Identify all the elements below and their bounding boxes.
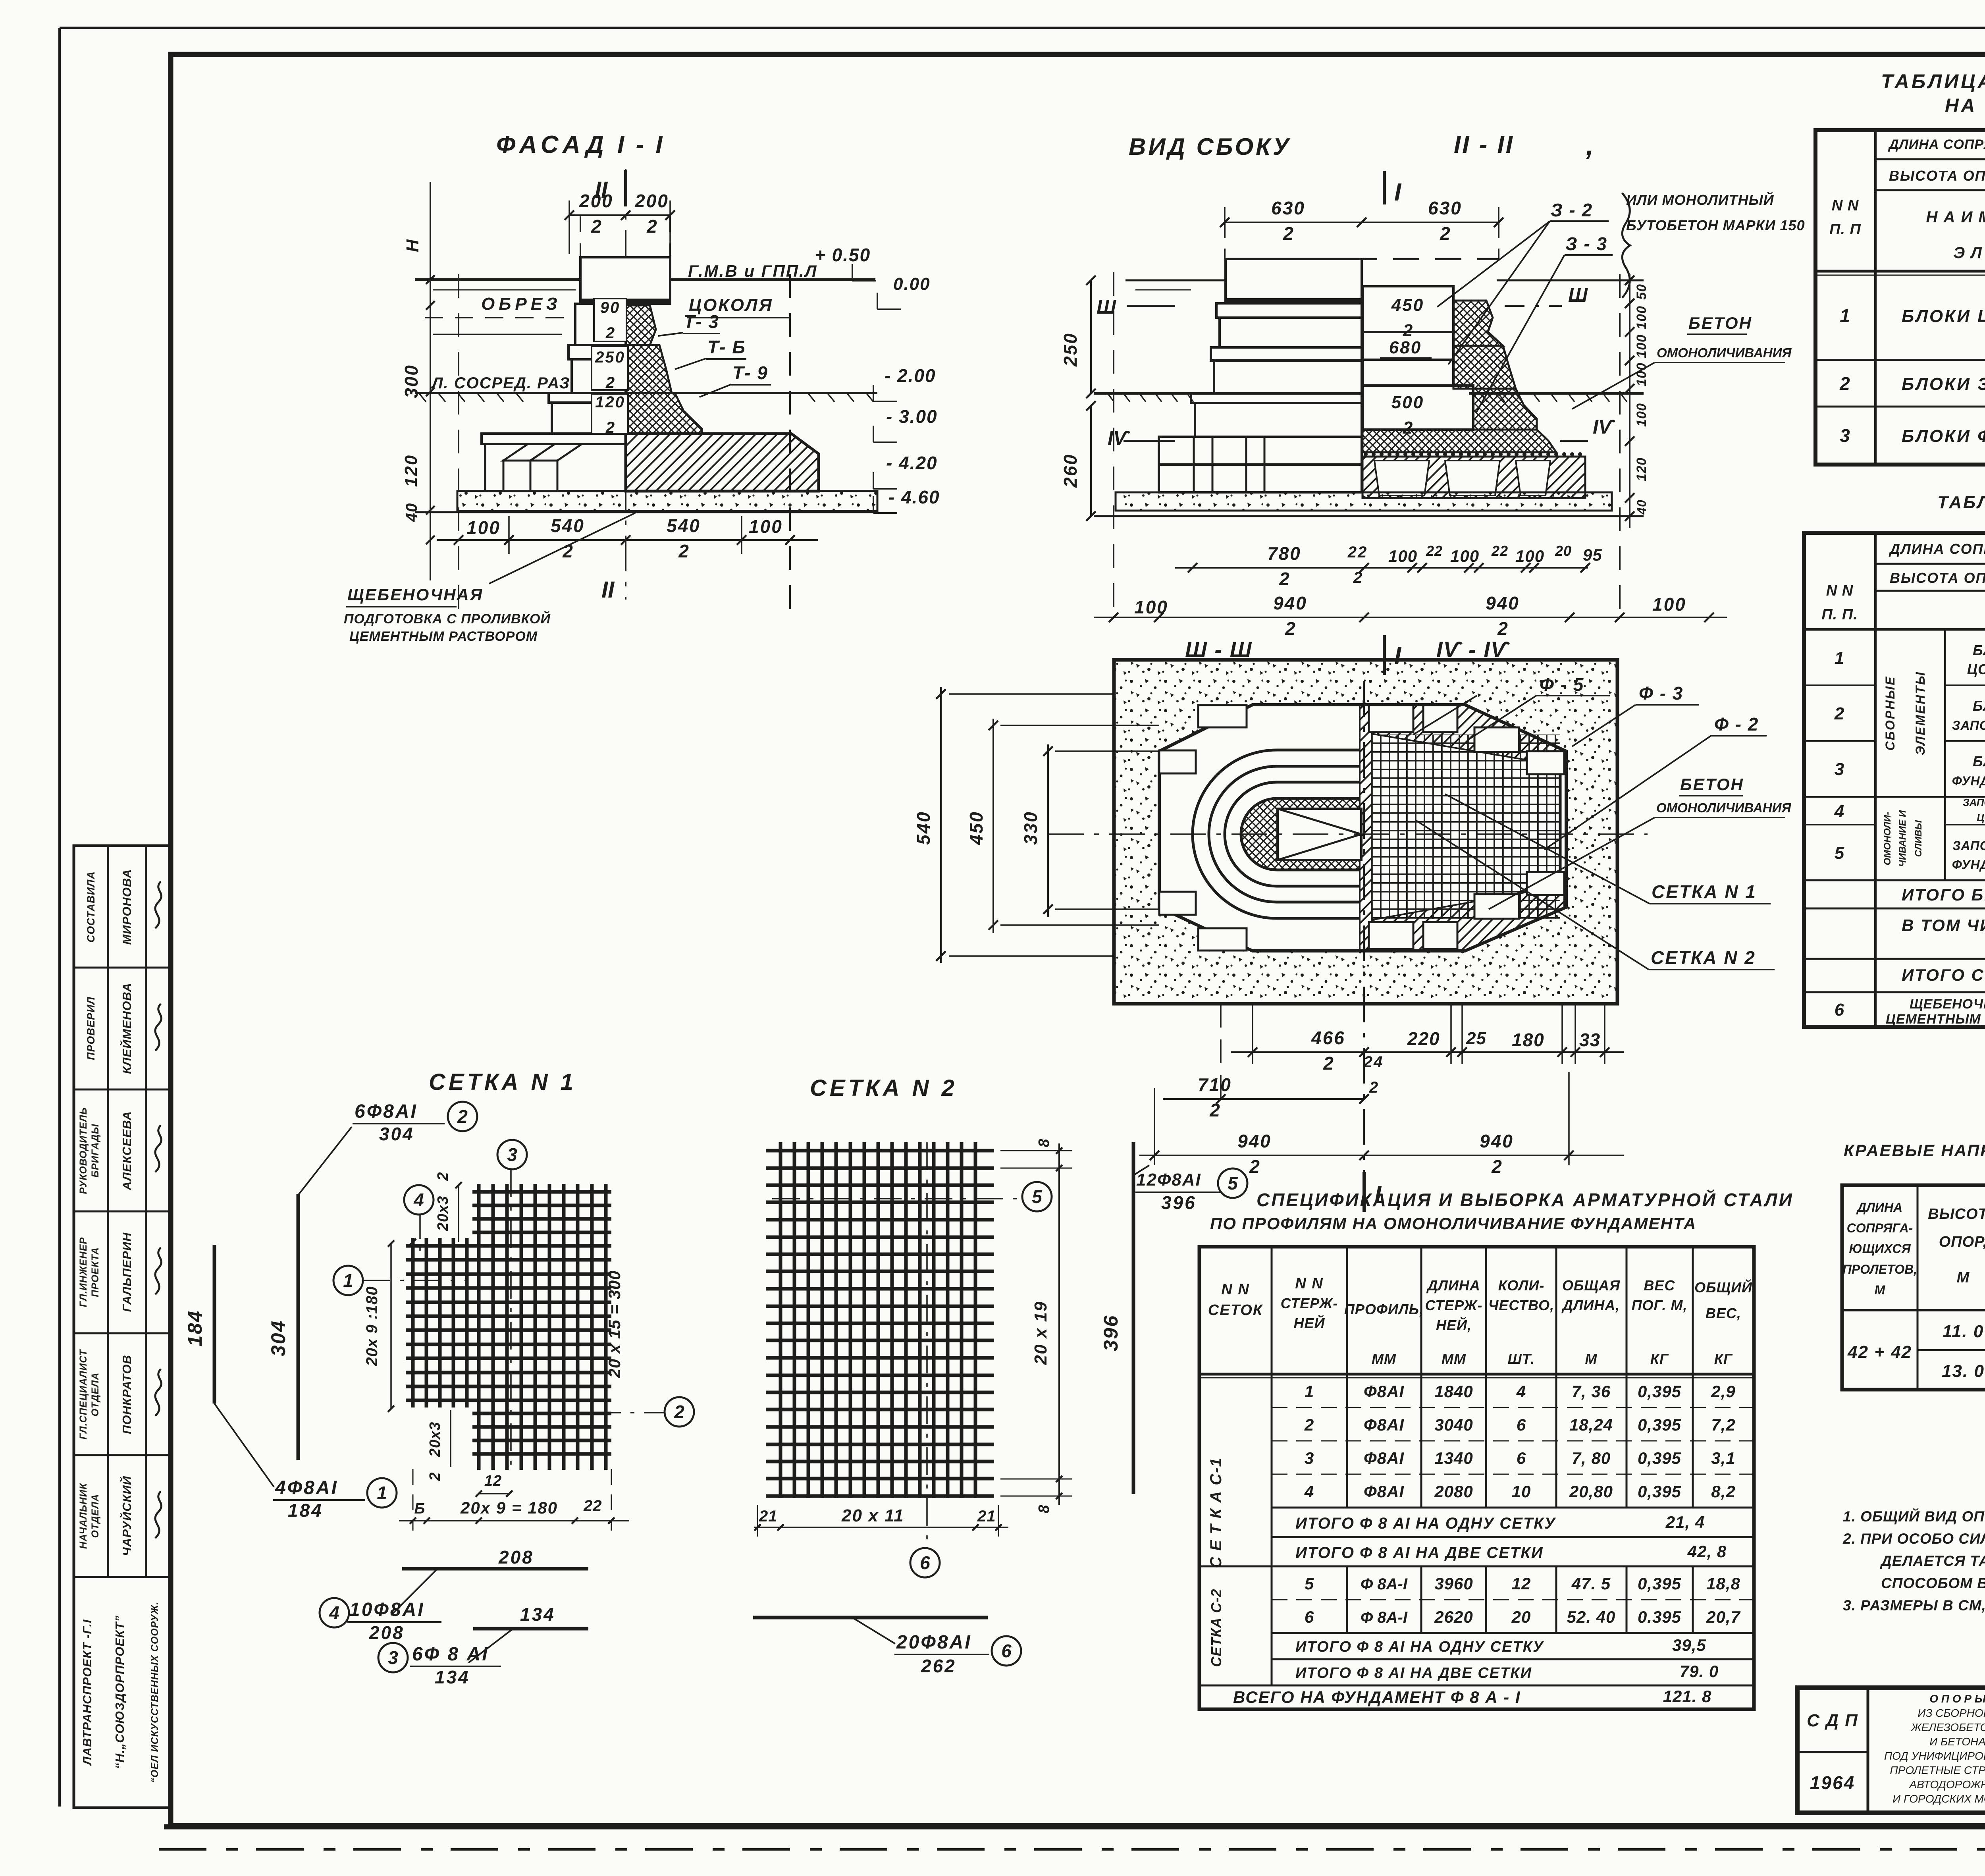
- side view right dashed axis: [1619, 274, 1621, 621]
- svg-text:ВЕС,: ВЕС,: [1706, 1305, 1741, 1321]
- svg-text:220: 220: [1407, 1028, 1440, 1049]
- facade cut-of-plinth dashed level: [425, 317, 572, 318]
- svg-text:0,395: 0,395: [1638, 1382, 1681, 1401]
- edge stresses table: [1842, 1185, 1985, 1390]
- svg-text:М: М: [1585, 1351, 1598, 1367]
- svg-text:4: 4: [1516, 1382, 1526, 1401]
- svg-text:0,395: 0,395: [1638, 1574, 1681, 1593]
- svg-text:II: II: [601, 577, 615, 603]
- svg-text:0.00: 0.00: [893, 274, 931, 294]
- svg-text:2: 2: [1353, 569, 1362, 586]
- svg-text:304: 304: [267, 1320, 289, 1356]
- sheet outer cut line (top): [60, 27, 1985, 29]
- svg-text:940: 940: [1486, 593, 1520, 613]
- svg-text:3: 3: [388, 1647, 398, 1668]
- svg-text:208: 208: [369, 1622, 405, 1643]
- svg-text:2: 2: [605, 419, 615, 436]
- svg-text:100: 100: [1388, 547, 1417, 565]
- svg-text:20х3: 20х3: [427, 1422, 443, 1458]
- svg-text:N N: N N: [1295, 1275, 1323, 1292]
- svg-text:10Ф8АI: 10Ф8АI: [349, 1599, 425, 1620]
- svg-text:20,80: 20,80: [1569, 1482, 1613, 1501]
- svg-text:Ф8АI: Ф8АI: [1364, 1415, 1404, 1434]
- svg-text:940: 940: [1237, 1131, 1272, 1151]
- svg-text:И БЕТОНА: И БЕТОНА: [1929, 1735, 1985, 1748]
- svg-text:2: 2: [1497, 618, 1508, 639]
- svg-text:1: 1: [377, 1483, 387, 1503]
- svg-text:ІѴ: ІѴ: [1593, 416, 1616, 438]
- svg-text:2: 2: [1249, 1156, 1260, 1177]
- plan dim row 710/2: [1163, 1004, 1369, 1120]
- svg-text:СПОСОБОМ В СООТВЕТСТВИИ С Л: СПОСОБОМ В СООТВЕТСТВИИ С ЛИСТОМ 112 ПО …: [1881, 1575, 1985, 1591]
- svg-text:СЕТКА N 1: СЕТКА N 1: [1652, 881, 1757, 902]
- svg-text:“ОЕЛ ИСКУССТВЕННЫХ СООРУЖ.: “ОЕЛ ИСКУССТВЕННЫХ СООРУЖ.: [149, 1602, 160, 1783]
- svg-text:Ф - 3: Ф - 3: [1639, 683, 1683, 704]
- svg-text:3: 3: [1840, 425, 1851, 446]
- spec table: [1199, 1247, 1754, 1709]
- svg-text:ОБРЕЗ: ОБРЕЗ: [481, 294, 561, 314]
- svg-text:СОПРЯГА-: СОПРЯГА-: [1847, 1221, 1913, 1235]
- svg-text:4Ф8АI: 4Ф8АI: [275, 1477, 338, 1498]
- svg-text:МИРОНОВА: МИРОНОВА: [120, 869, 134, 945]
- svg-text:6: 6: [920, 1552, 930, 1573]
- svg-text:100: 100: [466, 517, 501, 538]
- svg-text:ДЕЛАЕТСЯ ТАМПОНАЖНЫЙ СЛОЙ: ДЕЛАЕТСЯ ТАМПОНАЖНЫЙ СЛОЙ БЕТОНА, УКЛАДЫ…: [1880, 1552, 1985, 1569]
- side view right dimension chain 50/100/100/100/100/120/40: [1625, 274, 1649, 528]
- plan dim row 940/2 + 940/2: [1139, 1072, 1624, 1177]
- svg-text:1340: 1340: [1434, 1449, 1473, 1467]
- svg-text:СЕТКА N 1: СЕТКА N 1: [429, 1069, 576, 1095]
- svg-text:13. 0: 13. 0: [1942, 1361, 1985, 1381]
- svg-text:ГЛ.СПЕЦИАЛИСТ: ГЛ.СПЕЦИАЛИСТ: [78, 1349, 89, 1440]
- svg-text:120: 120: [401, 454, 421, 487]
- svg-text:З - 2: З - 2: [1551, 200, 1593, 220]
- facade section mark II top: [625, 169, 626, 600]
- svg-text:20Ф8АI: 20Ф8АI: [896, 1632, 972, 1653]
- svg-text:100: 100: [1634, 334, 1649, 358]
- svg-text:121. 8: 121. 8: [1663, 1687, 1712, 1706]
- svg-text:90: 90: [600, 299, 621, 316]
- plan right half: diagonal hatch along sloped edges: [1372, 705, 1564, 766]
- mesh N1 sample bar no.3 (134): [473, 1627, 588, 1631]
- svg-text:БЛОКИ ЗАПОЛНЕНИЯ: БЛОКИ ЗАПОЛНЕНИЯ: [1902, 374, 1985, 394]
- svg-text:100: 100: [749, 516, 783, 537]
- side view ground line: [1094, 392, 1197, 395]
- svg-text:940: 940: [1480, 1131, 1514, 1151]
- facade inner dims 90/2 250/2 120/2: [594, 299, 626, 341]
- svg-text:КГ: КГ: [1714, 1351, 1733, 1367]
- svg-text:1964: 1964: [1810, 1772, 1855, 1793]
- svg-text:ЦЕМЕНТНЫМ РАСТВОРОМ: ЦЕМЕНТНЫМ РАСТВОРОМ: [349, 629, 538, 644]
- bottom trim thick line: [164, 1824, 1985, 1830]
- svg-text:Н А И М Е Н О В А Н Н Е: Н А И М Е Н О В А Н Н Е: [1926, 208, 1985, 226]
- side view section mark I top: [1383, 171, 1386, 204]
- svg-text:22: 22: [1347, 544, 1368, 561]
- plan left dim 450: [992, 719, 994, 933]
- svg-text:ТАБЛИЦА МОНТАЖНЫХ ЭЛЕМЕНТО: ТАБЛИЦА МОНТАЖНЫХ ЭЛЕМЕНТОВ.: [1881, 70, 1985, 93]
- mesh N1 sample bar no.1 (184): [213, 1245, 216, 1404]
- svg-text:Т- 9: Т- 9: [732, 362, 768, 383]
- svg-text:24: 24: [1363, 1053, 1384, 1071]
- svg-text:100: 100: [1634, 403, 1649, 427]
- svg-text:2: 2: [1839, 373, 1851, 394]
- svg-text:20: 20: [1555, 543, 1572, 559]
- signature stamp table (rotated, left margin): [74, 846, 171, 1808]
- svg-text:БЕТОН: БЕТОН: [1688, 314, 1752, 332]
- svg-text:3: 3: [1305, 1449, 1314, 1467]
- svg-text:ДЛИНА: ДЛИНА: [1856, 1200, 1902, 1215]
- svg-text:АЛЕКСЕЕВА: АЛЕКСЕЕВА: [120, 1111, 134, 1191]
- svg-text:ПРОЕКТА: ПРОЕКТА: [90, 1247, 101, 1297]
- svg-text:12: 12: [1512, 1574, 1531, 1593]
- svg-text:ПРОВЕРИЛ: ПРОВЕРИЛ: [85, 997, 97, 1060]
- mesh N1 bottom dim row 6 20x9=180 22: [399, 1469, 629, 1531]
- svg-text:- 4.20: - 4.20: [886, 453, 938, 473]
- svg-text:Ф 8А-I: Ф 8А-I: [1361, 1609, 1408, 1626]
- svg-text:СОСТАВИЛА: СОСТАВИЛА: [85, 871, 97, 943]
- svg-text:БЛОКИ: БЛОКИ: [1973, 753, 1985, 769]
- svg-text:2: 2: [1440, 223, 1450, 244]
- svg-text:ДЛИНА СОПРЯГАЮЩИХСЯ ПРОЛЕТОВ: ДЛИНА СОПРЯГАЮЩИХСЯ ПРОЛЕТОВ: [1888, 137, 1985, 152]
- svg-text:ДЛИНА: ДЛИНА: [1426, 1277, 1480, 1294]
- svg-text:- 3.00: - 3.00: [886, 406, 938, 427]
- svg-text:500: 500: [1391, 393, 1424, 412]
- svg-text:Т- Б: Т- Б: [707, 337, 746, 357]
- svg-text:21, 4: 21, 4: [1665, 1513, 1705, 1531]
- svg-text:ПОГ. М,: ПОГ. М,: [1632, 1297, 1688, 1313]
- section mark I (between side view and plan): [1383, 635, 1386, 675]
- svg-text:6: 6: [1305, 1608, 1314, 1626]
- svg-text:466: 466: [1311, 1028, 1345, 1048]
- svg-text:2: 2: [1834, 704, 1845, 723]
- svg-text:КГ: КГ: [1650, 1351, 1669, 1367]
- svg-text:100: 100: [1652, 594, 1686, 615]
- plan left dim 330: [1047, 744, 1049, 917]
- svg-text:2: 2: [646, 216, 657, 237]
- svg-text:6Ф 8 АI: 6Ф 8 АI: [412, 1644, 489, 1665]
- svg-text:79. 0: 79. 0: [1680, 1662, 1719, 1681]
- facade water line GMV/GPPL: [415, 278, 875, 281]
- svg-text:6: 6: [1001, 1641, 1012, 1661]
- svg-text:0.395: 0.395: [1638, 1608, 1681, 1626]
- svg-text:100: 100: [1450, 547, 1479, 565]
- svg-text:1: 1: [343, 1270, 353, 1291]
- mesh N2 sample bar no.5 (396): [1132, 1142, 1135, 1494]
- svg-text:ФУНДАМЕНТА: ФУНДАМЕНТА: [1952, 858, 1985, 872]
- svg-text:260: 260: [1060, 453, 1081, 488]
- svg-text:5: 5: [1228, 1173, 1238, 1193]
- svg-text:НАЧАЛЬНИК: НАЧАЛЬНИК: [78, 1483, 89, 1549]
- svg-text:20 х 15 = 300: 20 х 15 = 300: [605, 1270, 624, 1378]
- svg-text:ЩЕБЕНОЧНАЯ ПОДГОТОВКА С ПРО: ЩЕБЕНОЧНАЯ ПОДГОТОВКА С ПРОЛИВКОЙ: [1910, 996, 1985, 1012]
- section II-II infill blocks Z-2 Z-3 (cross-hatched): [1363, 301, 1556, 452]
- svg-text:20х 9 = 180: 20х 9 = 180: [460, 1498, 558, 1517]
- svg-text:ПРОЛЕТНЫЕ СТРОЕНИЯ: ПРОЛЕТНЫЕ СТРОЕНИЯ: [1890, 1764, 1985, 1776]
- svg-text:52. 40: 52. 40: [1567, 1608, 1616, 1626]
- svg-text:ИТОГО СТАЛИ КЛАССА А-I: ИТОГО СТАЛИ КЛАССА А-I: [1902, 966, 1985, 984]
- svg-text:П. П: П. П: [1829, 221, 1861, 238]
- svg-text:ДЛИНА,: ДЛИНА,: [1561, 1297, 1620, 1313]
- svg-text:ГАЛЬПЕРИН: ГАЛЬПЕРИН: [120, 1232, 134, 1312]
- svg-text:2: 2: [591, 216, 601, 237]
- svg-text:5: 5: [1835, 843, 1845, 863]
- svg-text:Ф - 5: Ф - 5: [1540, 674, 1584, 695]
- svg-text:,: ,: [1586, 130, 1594, 161]
- svg-text:396: 396: [1161, 1192, 1197, 1213]
- svg-text:3: 3: [1835, 760, 1845, 779]
- svg-text:7, 36: 7, 36: [1572, 1382, 1611, 1401]
- svg-text:134: 134: [520, 1604, 555, 1625]
- plan left dim 540: [940, 687, 942, 963]
- section II-II centre blocks with dims 450/2 680 500/2: [1363, 286, 1473, 438]
- svg-text:- 2.00: - 2.00: [885, 365, 936, 386]
- svg-text:540: 540: [913, 811, 934, 845]
- svg-text:ОМОНОЛИ-: ОМОНОЛИ-: [1882, 812, 1893, 866]
- svg-text:7, 80: 7, 80: [1572, 1449, 1611, 1467]
- svg-text:50: 50: [1634, 284, 1649, 300]
- svg-text:780: 780: [1267, 543, 1301, 564]
- plan section line I (vertical dash-dot): [1363, 681, 1365, 1183]
- svg-text:3,1: 3,1: [1711, 1449, 1735, 1467]
- svg-text:21: 21: [759, 1508, 778, 1525]
- svg-text:ТАБЛИЦА РАСХОДА ОСНОВНЫХ МА: ТАБЛИЦА РАСХОДА ОСНОВНЫХ МАТЕРИАЛОВ: [1937, 493, 1985, 512]
- svg-text:БЛОКИ: БЛОКИ: [1973, 698, 1985, 714]
- svg-text:6: 6: [1517, 1449, 1526, 1467]
- svg-text:6: 6: [1517, 1415, 1526, 1434]
- svg-text:ШТ.: ШТ.: [1508, 1351, 1535, 1367]
- facade bottom dimension row 100-540/2-540/2-100: [437, 539, 818, 541]
- svg-text:II - II: II - II: [1454, 131, 1514, 158]
- svg-text:20 х 11: 20 х 11: [841, 1506, 904, 1525]
- svg-text:95: 95: [1583, 546, 1602, 564]
- mesh N1 bar callout circle 3: [510, 1169, 512, 1467]
- svg-text:М: М: [1875, 1283, 1886, 1297]
- mesh N1 bar callout circle 4: [419, 1215, 421, 1255]
- svg-text:АВТОДОРОЖНЫХ: АВТОДОРОЖНЫХ: [1908, 1778, 1985, 1791]
- mesh N1 grid: [406, 1184, 611, 1470]
- svg-text:ММ: ММ: [1442, 1351, 1466, 1367]
- svg-text:ФАСАД: ФАСАД: [496, 131, 609, 158]
- svg-text:ЗАПОЛНЕНИЕ: ЗАПОЛНЕНИЕ: [1963, 796, 1985, 808]
- svg-text:ЩЕБЕНОЧНАЯ: ЩЕБЕНОЧНАЯ: [347, 585, 483, 604]
- svg-text:4: 4: [413, 1190, 424, 1210]
- plan corner/edge joint blocks: [1159, 705, 1564, 951]
- svg-text:100: 100: [1634, 362, 1649, 386]
- svg-text:ПОД УНИФИЦИРОВАННЫЕ: ПОД УНИФИЦИРОВАННЫЕ: [1884, 1750, 1985, 1762]
- svg-text:ОМОНОЛИЧИВАНИЯ: ОМОНОЛИЧИВАНИЯ: [1656, 800, 1791, 815]
- svg-text:12Ф8АI: 12Ф8АI: [1136, 1170, 1201, 1190]
- svg-text:2: 2: [678, 541, 689, 561]
- svg-text:ВИД СБОКУ: ВИД СБОКУ: [1129, 133, 1291, 160]
- svg-text:СТЕРЖ-: СТЕРЖ-: [1425, 1297, 1483, 1313]
- facade right boundary dashed axis: [789, 274, 791, 621]
- svg-text:ОТДЕЛА: ОТДЕЛА: [90, 1494, 101, 1538]
- side view precast stepped profile (left half): [1159, 259, 1362, 492]
- facade left boundary dashed axis: [458, 274, 459, 621]
- svg-text:40: 40: [1634, 499, 1649, 515]
- svg-text:3960: 3960: [1434, 1574, 1473, 1593]
- svg-text:2: 2: [1209, 1100, 1220, 1120]
- svg-text:2080: 2080: [1434, 1482, 1473, 1501]
- svg-text:ВЫСОТА ОПОРЫ М: ВЫСОТА ОПОРЫ М: [1890, 570, 1985, 586]
- svg-text:2: 2: [605, 374, 615, 391]
- mesh N2 bar callout circle 5: [772, 1198, 1019, 1199]
- plan centre joint strip (hatched): [1360, 705, 1372, 951]
- mesh N2 right dim 8 / 20x19 / 8: [1000, 1138, 1072, 1513]
- svg-text:2: 2: [674, 1402, 684, 1422]
- svg-text:20х 9 :180: 20х 9 :180: [363, 1286, 381, 1366]
- svg-text:42, 8: 42, 8: [1687, 1542, 1727, 1561]
- svg-text:ИТОГО БЕТОНА: ИТОГО БЕТОНА: [1902, 885, 1985, 904]
- svg-text:НЕЙ: НЕЙ: [1294, 1315, 1325, 1331]
- svg-text:“Н.„СОЮЗДОРПРОЕКТ”: “Н.„СОЮЗДОРПРОЕКТ”: [113, 1615, 127, 1769]
- title block: [1797, 1688, 1985, 1813]
- svg-text:200: 200: [634, 191, 669, 211]
- svg-text:Ф 8А-I: Ф 8А-I: [1361, 1575, 1408, 1593]
- svg-text:ЦЕМЕНТНЫМ РАСТВОРОМ: ЦЕМЕНТНЫМ РАСТВОРОМ: [1886, 1012, 1985, 1027]
- svg-text:I: I: [1394, 179, 1402, 206]
- svg-text:СЕТОК: СЕТОК: [1208, 1302, 1263, 1319]
- svg-text:ВЫСОТА: ВЫСОТА: [1928, 1206, 1985, 1222]
- svg-text:450: 450: [966, 811, 987, 845]
- svg-text:ГЛ.ИНЖЕНЕР: ГЛ.ИНЖЕНЕР: [78, 1237, 89, 1307]
- side view rubble bed strip: [1094, 492, 1644, 516]
- svg-text:330: 330: [1020, 811, 1041, 845]
- svg-text:6Ф8АI: 6Ф8АI: [355, 1101, 418, 1122]
- facade pier column (precast left half): [482, 216, 670, 491]
- svg-text:21: 21: [977, 1508, 996, 1525]
- svg-text:КЛЕЙМЕНОВА: КЛЕЙМЕНОВА: [119, 983, 134, 1074]
- svg-text:1: 1: [1305, 1382, 1314, 1401]
- svg-text:+ 0.50: + 0.50: [815, 245, 871, 265]
- svg-text:ВЫСОТА ОПОРЫ М: ВЫСОТА ОПОРЫ М: [1889, 168, 1985, 184]
- svg-text:4: 4: [329, 1602, 339, 1623]
- svg-text:22: 22: [583, 1497, 602, 1515]
- svg-text:И ГОРОДСКИХ МОСТОВ: И ГОРОДСКИХ МОСТОВ: [1892, 1793, 1985, 1805]
- mesh N2 bottom dim 21 20x11 21: [754, 1505, 1008, 1537]
- mesh N1 sample bar no.4 (208): [402, 1567, 588, 1571]
- svg-text:ЗАПОЛНЕНИЕ: ЗАПОЛНЕНИЕ: [1952, 839, 1985, 853]
- svg-text:2: 2: [457, 1106, 468, 1127]
- section II-II rebar mesh line (dots): [1363, 452, 1585, 457]
- svg-text:630: 630: [1271, 198, 1305, 218]
- facade H axis: [430, 182, 431, 580]
- mesh N1 left dim 20x9:180: [390, 1244, 392, 1409]
- mesh N2 grid: [766, 1142, 994, 1498]
- svg-text:Ф8АI: Ф8АI: [1364, 1382, 1404, 1401]
- svg-text:ПОДГОТОВКА С ПРОЛИВКОЙ: ПОДГОТОВКА С ПРОЛИВКОЙ: [344, 611, 551, 627]
- svg-text:680: 680: [1389, 338, 1422, 357]
- svg-text:20: 20: [1511, 1608, 1531, 1626]
- facade rubble bed strip: [415, 491, 877, 512]
- svg-text:396: 396: [1100, 1315, 1122, 1351]
- svg-text:ВЕС: ВЕС: [1644, 1277, 1675, 1294]
- mesh N1 top-left dim 20x3 2: [458, 1185, 459, 1242]
- svg-text:0,395: 0,395: [1638, 1482, 1681, 1501]
- svg-text:100: 100: [1634, 306, 1649, 330]
- svg-text:3. РАЗМЕРЫ В СМ, ОТМЕТКИ В: 3. РАЗМЕРЫ В СМ, ОТМЕТКИ В М , ДИАМЕТР А…: [1843, 1597, 1985, 1614]
- svg-text:8: 8: [1036, 1138, 1052, 1147]
- svg-text:4: 4: [1304, 1482, 1314, 1501]
- svg-text:Ш: Ш: [1568, 284, 1588, 306]
- svg-text:2: 2: [435, 1171, 451, 1181]
- side view water line: [1125, 280, 1227, 281]
- svg-text:3: 3: [507, 1144, 517, 1165]
- svg-text:47. 5: 47. 5: [1571, 1574, 1611, 1593]
- svg-text:5: 5: [1032, 1186, 1043, 1207]
- side view bottom dimension row 780/2 22/2 100 22 100 22 100 20 95: [1175, 543, 1602, 589]
- svg-text:2: 2: [1304, 1415, 1314, 1434]
- svg-text:ПРОФИЛЬ,: ПРОФИЛЬ,: [1344, 1301, 1424, 1317]
- svg-text:СЕТКА С-2: СЕТКА С-2: [1208, 1589, 1224, 1667]
- svg-text:250: 250: [1060, 332, 1081, 367]
- svg-text:ЮЩИХСЯ: ЮЩИХСЯ: [1849, 1242, 1911, 1256]
- svg-text:2: 2: [1283, 223, 1293, 244]
- svg-text:25: 25: [1466, 1029, 1486, 1048]
- mesh N1 dim 12: [479, 1493, 509, 1494]
- svg-text:208: 208: [498, 1547, 534, 1568]
- svg-text:262: 262: [921, 1656, 956, 1676]
- svg-text:2: 2: [427, 1471, 443, 1481]
- svg-text:СПЕЦИФИКАЦИЯ И ВЫБОРКА АРМАТУР: СПЕЦИФИКАЦИЯ И ВЫБОРКА АРМАТУРНОЙ СТАЛИ: [1257, 1190, 1794, 1210]
- side view left dashed axis: [1113, 272, 1114, 621]
- svg-text:20 х 19: 20 х 19: [1031, 1301, 1050, 1365]
- svg-text:I - I: I - I: [617, 131, 665, 158]
- svg-text:2: 2: [1279, 569, 1289, 589]
- svg-text:Ш: Ш: [1097, 296, 1116, 318]
- svg-text:450: 450: [1391, 295, 1424, 315]
- svg-text:540: 540: [667, 515, 701, 536]
- svg-text:184: 184: [184, 1310, 206, 1346]
- svg-text:СЛИВЫ: СЛИВЫ: [1913, 820, 1924, 857]
- side view dashed pier outline above water: [1225, 258, 1499, 260]
- svg-text:ММ: ММ: [1372, 1351, 1396, 1367]
- svg-text:- 4.60: - 4.60: [888, 487, 940, 507]
- table of erection elements: [1815, 130, 1985, 465]
- svg-text:2: 2: [1369, 1079, 1378, 1096]
- plan left half: nested block courses (U-shapes): [1193, 750, 1361, 918]
- facade leader: rubble preparation note: [489, 513, 635, 584]
- svg-text:33: 33: [1579, 1030, 1600, 1050]
- svg-text:18,24: 18,24: [1569, 1415, 1613, 1434]
- svg-text:ОБЩИЙ: ОБЩИЙ: [1694, 1279, 1752, 1296]
- svg-text:НЕЙ,: НЕЙ,: [1436, 1317, 1472, 1333]
- svg-text:ПРОЛЕТОВ,: ПРОЛЕТОВ,: [1842, 1262, 1917, 1276]
- svg-text:КОЛИ-: КОЛИ-: [1498, 1277, 1545, 1294]
- svg-text:100: 100: [1515, 547, 1544, 565]
- svg-text:120: 120: [595, 393, 625, 411]
- svg-text:СБОРНЫЕ: СБОРНЫЕ: [1883, 675, 1897, 750]
- svg-text:3040: 3040: [1434, 1415, 1473, 1434]
- svg-text:ИЗ СБОРНОГО: ИЗ СБОРНОГО: [1918, 1707, 1985, 1719]
- svg-text:2,9: 2,9: [1711, 1382, 1735, 1401]
- svg-text:ЧЕСТВО,: ЧЕСТВО,: [1488, 1297, 1554, 1313]
- svg-text:7,2: 7,2: [1711, 1415, 1735, 1434]
- svg-text:Г.М.В и ГПП.Л: Г.М.В и ГПП.Л: [688, 262, 818, 280]
- svg-text:630: 630: [1428, 198, 1462, 218]
- svg-text:ЧИВАНИЕ И: ЧИВАНИЕ И: [1897, 810, 1908, 867]
- svg-text:БЛОКИ ЦОКОЛЯ: БЛОКИ ЦОКОЛЯ: [1902, 307, 1985, 326]
- svg-text:Н: Н: [403, 239, 422, 252]
- svg-text:ФУНДАМЕНТА: ФУНДАМЕНТА: [1952, 774, 1985, 788]
- svg-text:Э Л Е М Е Н Т О В: Э Л Е М Е Н Т О В: [1953, 244, 1985, 262]
- svg-text:ИТОГО Ф 8 АI НА ДВЕ СЕТКИ: ИТОГО Ф 8 АI НА ДВЕ СЕТКИ: [1295, 1665, 1532, 1681]
- svg-text:1: 1: [1835, 648, 1845, 668]
- svg-text:ИТОГО Ф 8 АI НА ОДНУ СЕТКУ: ИТОГО Ф 8 АI НА ОДНУ СЕТКУ: [1295, 1515, 1556, 1532]
- svg-text:20х3: 20х3: [435, 1196, 451, 1232]
- svg-text:12: 12: [484, 1473, 502, 1489]
- svg-text:С Е Т К А С-1: С Е Т К А С-1: [1207, 1457, 1225, 1568]
